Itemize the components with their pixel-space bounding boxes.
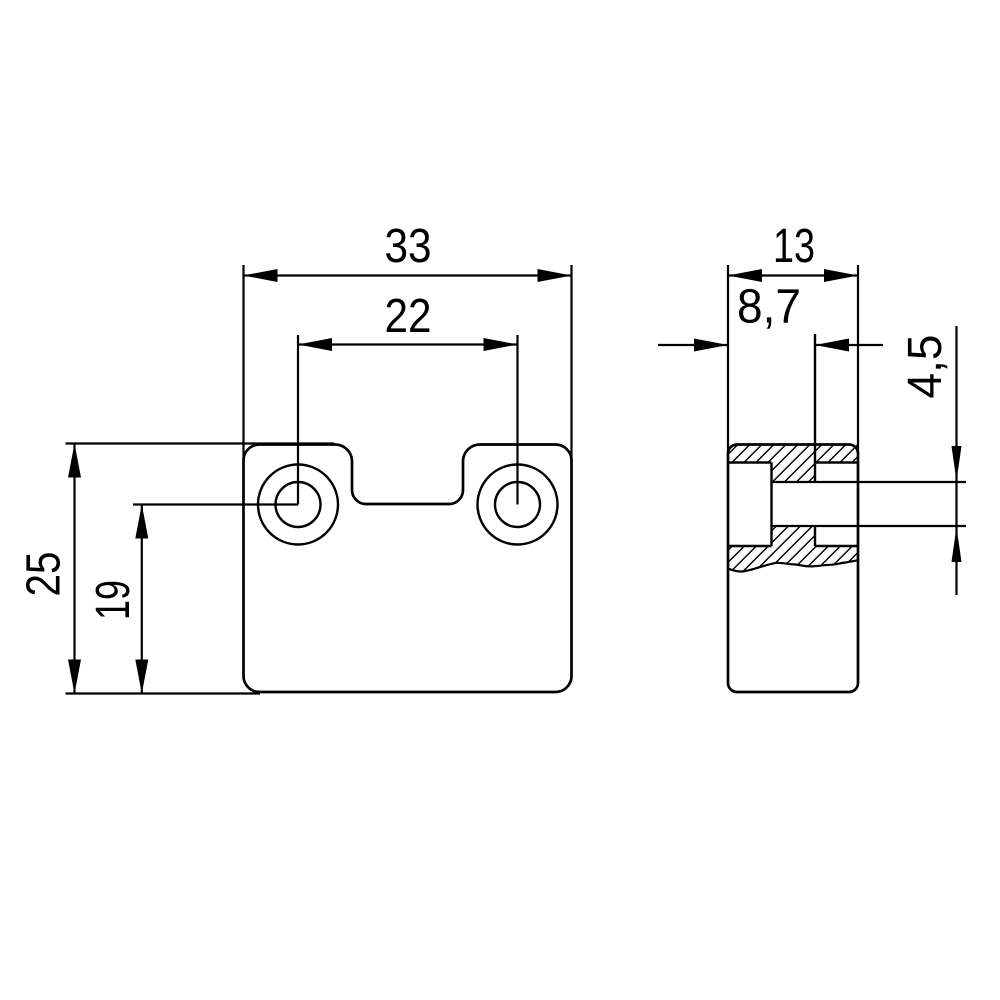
dimension 25: extension lines bbox=[66, 442, 335, 444]
small bore bottom edge + extension line for 4,5 bbox=[772, 525, 967, 527]
dimension 33: extension lines bbox=[242, 265, 244, 462]
dimension 4,5: dimension line with outside arrows bbox=[955, 326, 957, 595]
plate outline (front view, rounded rect with top notch) bbox=[244, 445, 572, 693]
lower shoulder right bbox=[815, 545, 858, 547]
counterbore shoulder right bbox=[815, 461, 858, 463]
dimension 13: dimension line bbox=[728, 274, 858, 276]
svg-text:25: 25 bbox=[18, 552, 71, 597]
svg-text:13: 13 bbox=[773, 220, 815, 273]
dimension 13: extension lines bbox=[727, 265, 729, 452]
right hole outer circle (counterbore dia 8) bbox=[478, 465, 558, 545]
svg-text:33: 33 bbox=[385, 220, 432, 273]
lower shoulder left bbox=[728, 545, 772, 547]
hatching of section bbox=[576, 440, 994, 582]
left hole centre line / extension for 22 bbox=[297, 335, 299, 505]
dimension 22: dimension line bbox=[298, 343, 518, 345]
svg-text:8,7: 8,7 bbox=[737, 281, 801, 334]
horizontal reference line to left hole centre (ext for 19) bbox=[133, 503, 298, 505]
left hole inner circle (dia 4,5) bbox=[276, 482, 321, 527]
right hole inner circle (dia 4,5) bbox=[495, 482, 540, 527]
right hole centre line / extension for 22 bbox=[516, 335, 518, 505]
dimension 19: dimension line bbox=[141, 505, 143, 694]
dimension 25: dimension line bbox=[73, 444, 75, 694]
side view outline (rounded rect) bbox=[728, 445, 858, 693]
dimension 8,7: dimension line with outside arrows bbox=[658, 344, 883, 346]
counterbore shoulder left bbox=[728, 461, 772, 463]
small bore top edge + extension line for 4,5 bbox=[772, 481, 967, 483]
svg-text:22: 22 bbox=[385, 290, 432, 343]
svg-text:4,5: 4,5 bbox=[899, 335, 952, 399]
svg-text:19: 19 bbox=[87, 580, 140, 620]
break line (wavy) bbox=[728, 560, 858, 571]
8,7 depth line vertical (extension + edge) bbox=[814, 334, 816, 546]
dimension 33: dimension line bbox=[244, 274, 572, 276]
left hole outer circle (counterbore dia 8) bbox=[258, 465, 338, 545]
counterbore step vertical bbox=[770, 463, 772, 547]
